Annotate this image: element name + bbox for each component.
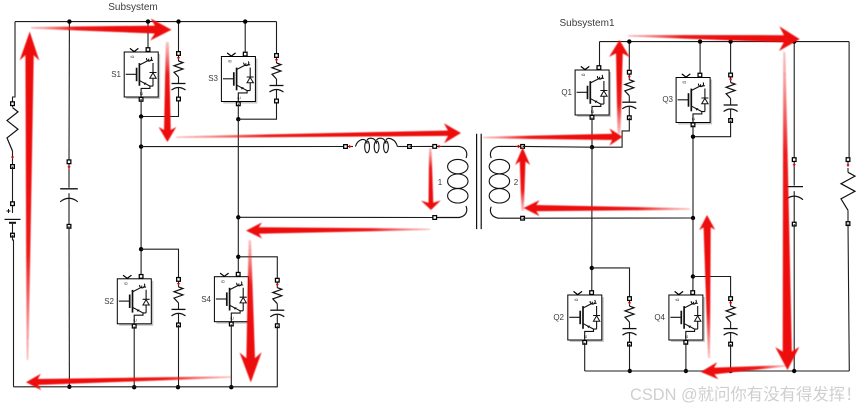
transistor S4 xyxy=(214,272,250,325)
wire Q3 snubber bottom xyxy=(693,121,731,137)
wire S3 node to snubber xyxy=(238,101,276,119)
node D Q3-Q4 junction xyxy=(691,135,695,139)
svg-text:Q1: Q1 xyxy=(561,88,572,97)
wire out cap top xyxy=(793,42,795,160)
transistor Q1 xyxy=(575,66,611,119)
svg-text:E: E xyxy=(236,96,241,99)
transistor S2 xyxy=(117,275,153,328)
transformer secondary winding xyxy=(489,145,524,221)
svg-text:Q2: Q2 xyxy=(553,313,564,322)
wire right bottom rail xyxy=(585,370,850,372)
svg-text:CSDN @就问你有没有得发挥！: CSDN @就问你有没有得发挥！ xyxy=(630,386,862,404)
svg-text:S3: S3 xyxy=(208,74,218,83)
wire Q3 emitter xyxy=(692,125,694,218)
wire source bottom xyxy=(13,235,14,387)
inductor L1 xyxy=(343,138,411,152)
node S2 snubber tap xyxy=(139,247,143,251)
svg-text:g: g xyxy=(574,299,579,302)
flow arrow A10 left rail2 right xyxy=(524,200,691,216)
wire source branch xyxy=(13,22,16,101)
node Q4 bottom junction xyxy=(684,369,688,373)
flow arrow A4 right rail1 xyxy=(176,123,461,143)
svg-text:E: E xyxy=(583,335,588,338)
svg-text:g: g xyxy=(683,81,688,84)
flow arrow A1 up source xyxy=(20,32,40,361)
transistor Q2 xyxy=(568,291,604,344)
node S4 bottom junction xyxy=(229,385,233,389)
wire S4 snubber top xyxy=(238,257,277,280)
svg-text:E: E xyxy=(132,319,137,322)
wire S1 snubber top xyxy=(178,22,180,54)
node rail2 right tap xyxy=(691,216,695,220)
wire load top xyxy=(848,42,850,157)
wire Q2 snubber top xyxy=(592,268,630,299)
flow arrow A13 right top rail2 xyxy=(628,26,800,51)
node S1 top rail junction xyxy=(146,19,150,23)
svg-text:2: 2 xyxy=(514,178,519,187)
transistor S3 xyxy=(221,52,257,105)
snubber RC S2 xyxy=(172,278,186,327)
wire Q1 snubber bottom xyxy=(592,118,629,148)
wire Q3 snubber top xyxy=(730,42,732,75)
capacitor C_out xyxy=(785,158,803,226)
snubber RC Q4 xyxy=(724,297,738,346)
transformer primary winding xyxy=(433,145,468,220)
node Q1 snubber rail junction xyxy=(627,39,631,43)
node rail1 tap xyxy=(139,144,143,148)
flow arrow A2 right top rail xyxy=(31,19,172,41)
wire leg2 mid right xyxy=(692,218,694,293)
node A S1-S2 junction xyxy=(139,114,143,118)
wire left bottom rail xyxy=(14,386,278,388)
wire S4 emitter xyxy=(230,324,232,387)
resistor source R1 xyxy=(7,101,18,168)
node Q3 top rail junction xyxy=(698,39,702,43)
node rail2 tap xyxy=(236,215,240,219)
node S3 top rail junction xyxy=(243,19,247,23)
flow arrow A7 down S4 xyxy=(240,240,262,382)
node S1 snubber rail junction xyxy=(176,19,180,23)
wire Q1 collector xyxy=(599,42,601,67)
wire right top rail xyxy=(600,41,850,43)
node cap-top rail junction xyxy=(67,19,71,23)
wire cap branch top xyxy=(68,22,70,162)
transistor S1 xyxy=(124,48,160,101)
wire secondary top to node C xyxy=(523,145,592,148)
svg-text:g: g xyxy=(582,74,587,77)
flow arrow A14 down output xyxy=(775,52,799,370)
flow arrow A3 down S1 xyxy=(159,42,177,142)
wire secondary bottom to leg2 xyxy=(523,217,693,219)
svg-text:g: g xyxy=(124,282,129,285)
wire inductor to primary xyxy=(410,145,435,147)
resistor R_load xyxy=(841,158,855,226)
wire source mid xyxy=(12,167,14,204)
wire leg1 mid right xyxy=(591,147,593,292)
flow arrow A6 left rail2 xyxy=(246,223,430,239)
wire load bottom xyxy=(848,224,849,371)
node cap-bottom rail junction xyxy=(67,385,71,389)
wire rail2 xyxy=(238,216,435,218)
node S4 snubber tap xyxy=(236,255,240,259)
flow arrow A11 right to Q1 node xyxy=(483,129,623,146)
svg-text:S2: S2 xyxy=(104,297,114,306)
wire Q2 snubber bottom xyxy=(629,344,631,371)
wire Q1 emitter xyxy=(591,118,593,148)
svg-text:g: g xyxy=(221,280,226,283)
node Q3 snubber rail junction xyxy=(728,39,732,43)
node C Q1-Q2 junction xyxy=(590,145,594,149)
dc source V1 xyxy=(5,202,21,237)
node S2 snubber bottom junction xyxy=(176,385,180,389)
node S2 bottom junction xyxy=(132,385,136,389)
node Q2 snubber bottom junction xyxy=(628,369,632,373)
wire S1 node to snubber xyxy=(141,99,178,117)
snubber RC Q1 xyxy=(622,70,636,119)
flow arrow A16 up Q4 xyxy=(699,215,715,358)
wire S2 snubber top xyxy=(141,249,178,279)
flow arrow A15 left bottom right xyxy=(701,362,786,379)
svg-text:E: E xyxy=(684,335,689,338)
snubber RC Q3 xyxy=(724,73,738,122)
wire leg1 mid xyxy=(140,117,142,277)
svg-text:Q4: Q4 xyxy=(654,313,665,322)
node Q2 snubber tap xyxy=(590,266,594,270)
svg-text:Subsystem1: Subsystem1 xyxy=(559,18,614,29)
svg-text:S4: S4 xyxy=(201,295,211,304)
svg-text:E: E xyxy=(691,117,696,120)
wire S1 collector xyxy=(147,22,149,48)
wire Q4 snubber bottom xyxy=(730,344,732,371)
svg-text:g: g xyxy=(131,56,136,59)
wire Q4 snubber top xyxy=(693,277,731,299)
flow arrow A5 down primary xyxy=(421,148,441,210)
node B S3-S4 junction xyxy=(236,117,240,121)
svg-text:Q3: Q3 xyxy=(662,95,673,104)
wire S2 snubber bottom xyxy=(178,325,180,387)
capacitor C_in xyxy=(60,160,78,228)
node Q4 snubber bottom junction xyxy=(728,369,732,373)
node Q4 snubber tap xyxy=(691,274,695,278)
wire S3 emitter to node xyxy=(237,104,239,120)
snubber RC S4 xyxy=(270,278,284,327)
transformer core xyxy=(477,134,482,229)
svg-text:S1: S1 xyxy=(111,70,121,79)
node out cap rail junction xyxy=(792,39,796,43)
snubber RC Q2 xyxy=(623,297,637,346)
snubber RC S1 xyxy=(172,52,186,101)
svg-text:Subsystem: Subsystem xyxy=(108,2,157,13)
wire S3 collector xyxy=(244,22,246,53)
wire S2 emitter xyxy=(133,327,135,388)
flow arrow A8 left bottom rail xyxy=(26,374,232,390)
wire cap branch bottom xyxy=(68,226,70,386)
transistor Q4 xyxy=(669,291,705,344)
wire S3 snubber top xyxy=(276,22,278,56)
transistor Q3 xyxy=(676,73,712,126)
wire Q1 snubber top xyxy=(628,42,630,73)
flow arrow A9 up secondary xyxy=(515,148,530,212)
wire S1 emitter to node xyxy=(140,99,142,117)
wire S4 snubber bottom xyxy=(276,326,278,388)
wire out cap bottom xyxy=(793,224,795,371)
snubber RC S3 xyxy=(270,54,284,103)
svg-text:E: E xyxy=(590,110,595,113)
wire Q2 emitter xyxy=(584,343,586,371)
svg-text:g: g xyxy=(675,299,680,302)
wire leg2 mid xyxy=(237,119,239,274)
svg-text:E: E xyxy=(139,92,144,95)
wire rail1 xyxy=(141,146,343,148)
flow arrow A12 up Q1 xyxy=(609,40,630,134)
wire Q4 emitter xyxy=(685,343,687,371)
wire left top rail xyxy=(15,21,277,23)
svg-text:E: E xyxy=(229,317,234,320)
node out cap bottom junction xyxy=(792,369,796,373)
wire Q3 collector xyxy=(699,42,701,75)
svg-text:1: 1 xyxy=(438,178,443,187)
svg-text:g: g xyxy=(228,60,233,63)
